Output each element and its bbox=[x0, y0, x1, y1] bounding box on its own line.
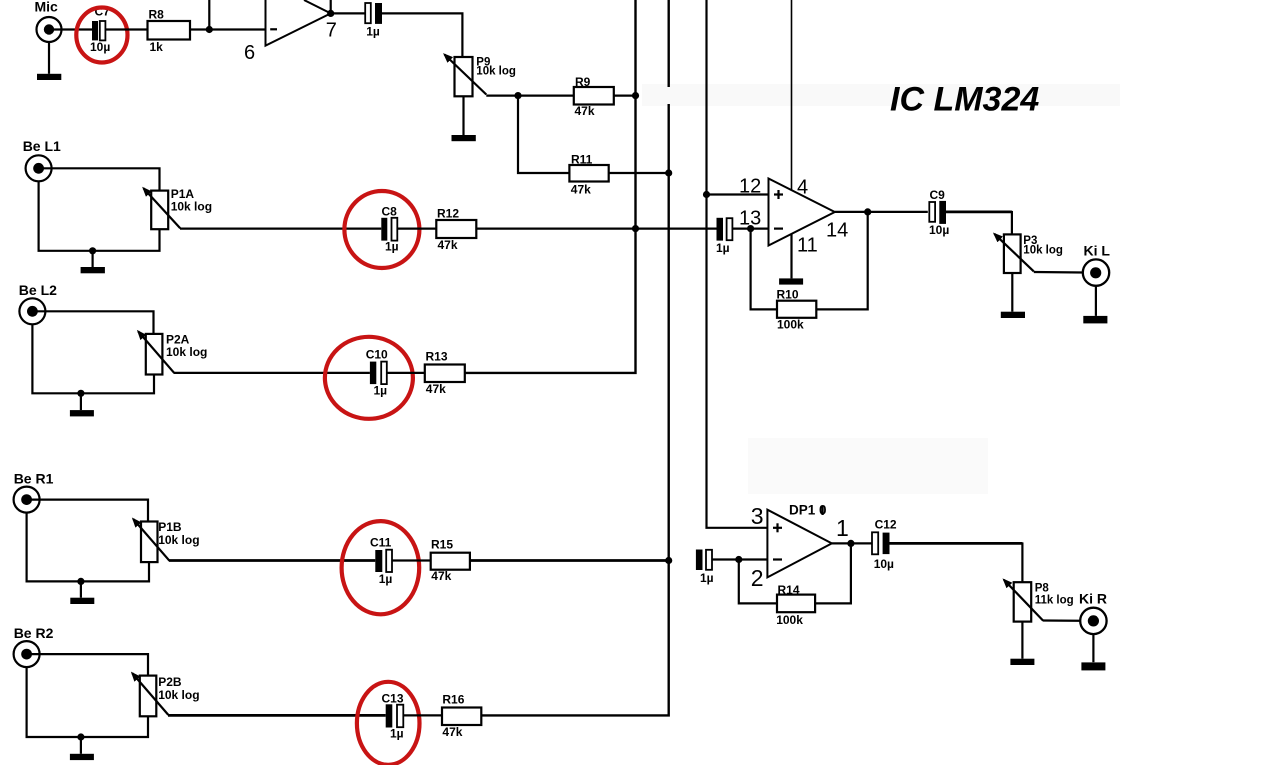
svg-text:14: 14 bbox=[826, 220, 848, 242]
wire summing node to input cap U1D bbox=[476, 228, 716, 230]
node Ki L label bbox=[1084, 242, 1111, 258]
ground Mic bbox=[37, 74, 61, 80]
wire P2A wiper to C10 bbox=[174, 372, 370, 374]
value 1µ C10 bbox=[374, 383, 388, 397]
connector Ki L jack bbox=[1083, 259, 1109, 285]
potentiometer P9 bbox=[445, 55, 487, 97]
wire cap to pin 2 bbox=[712, 558, 767, 560]
potentiometer P2B bbox=[132, 673, 168, 716]
capacitor C13 bbox=[386, 704, 404, 727]
value 10k log P2A bbox=[166, 345, 207, 359]
value 10µ C12 bbox=[874, 557, 894, 571]
svg-text:10µ: 10µ bbox=[929, 223, 949, 237]
value 47k bbox=[575, 104, 595, 118]
value 10k log P2B bbox=[158, 688, 199, 702]
svg-text:100k: 100k bbox=[776, 613, 803, 627]
wire Be L1 jack to P1A top bbox=[39, 168, 160, 190]
capacitor C8 bbox=[381, 218, 397, 241]
label R9 bbox=[575, 75, 591, 89]
svg-text:1µ: 1µ bbox=[716, 241, 730, 255]
node Be R1 label bbox=[14, 471, 54, 487]
svg-text:P8: P8 bbox=[1035, 582, 1050, 594]
svg-text:R16: R16 bbox=[442, 692, 464, 706]
svg-text:100k: 100k bbox=[777, 317, 804, 331]
svg-text:10k log: 10k log bbox=[158, 688, 199, 702]
svg-text:10k log: 10k log bbox=[171, 199, 212, 213]
svg-text:47k: 47k bbox=[431, 569, 451, 583]
junction pin 12 bus C bbox=[703, 191, 710, 198]
wire Ki R jack to ground bbox=[1092, 634, 1094, 662]
pin 12 label bbox=[739, 176, 761, 198]
value 10k log P1B bbox=[158, 533, 199, 547]
junction Be R2 ground node bbox=[77, 733, 84, 740]
wire pin 7 to coupling cap bbox=[331, 12, 366, 14]
svg-text:C8: C8 bbox=[382, 205, 398, 219]
capacitor C12 bbox=[872, 532, 890, 554]
red highlight circle around C11 bbox=[342, 521, 420, 614]
value 1µ pin2 cap bbox=[700, 571, 714, 585]
svg-text:10µ: 10µ bbox=[90, 40, 110, 54]
op-amp U1B (mic preamp, partial) bbox=[266, 0, 331, 46]
label P2B bbox=[158, 675, 182, 689]
pin 6 label bbox=[244, 42, 255, 64]
svg-text:Ki R: Ki R bbox=[1079, 590, 1107, 606]
wire Be R1 jack to P1B top bbox=[27, 500, 148, 522]
wire R11 to bus B bbox=[609, 172, 669, 174]
ground P9 bbox=[452, 135, 476, 141]
wire feedback stub up from pin 7 bbox=[330, 0, 332, 13]
svg-text:1µ: 1µ bbox=[374, 383, 388, 397]
potentiometer P8 bbox=[1004, 580, 1043, 622]
svg-text:7: 7 bbox=[326, 19, 337, 41]
junction Be L2 ground node bbox=[77, 390, 84, 397]
svg-text:R8: R8 bbox=[149, 8, 165, 22]
value 47k R11 bbox=[571, 182, 591, 196]
svg-text:10µ: 10µ bbox=[874, 557, 894, 571]
svg-text:1: 1 bbox=[836, 515, 849, 541]
label R11 bbox=[571, 152, 593, 166]
wire feedback right leg U1D bbox=[816, 212, 867, 310]
junction summing bus A bbox=[632, 225, 639, 232]
wire bus line A (left summing node) bbox=[465, 0, 636, 373]
wire Mic jack to C7 bbox=[49, 28, 93, 30]
label C12 bbox=[875, 517, 897, 531]
svg-text:1µ: 1µ bbox=[379, 572, 393, 586]
wire bus line C (reference to non-inverting inputs) bbox=[707, 0, 768, 528]
wire Be R1 jack shield loop bbox=[27, 512, 149, 581]
label C9 bbox=[930, 188, 946, 202]
value 11k log P8 bbox=[1035, 595, 1074, 607]
value 47k R15 bbox=[431, 569, 451, 583]
junction R15 bus B bbox=[665, 557, 672, 564]
label R16 bbox=[442, 692, 464, 706]
wire Be R1 ground stem bbox=[80, 581, 82, 597]
svg-text:R14: R14 bbox=[778, 583, 800, 597]
wire P3 wiper to Ki L jack bbox=[1034, 271, 1096, 274]
junction output node U1D bbox=[864, 208, 871, 215]
value 47k R16 bbox=[442, 725, 462, 739]
capacitor 1µ mic preamp output bbox=[365, 3, 382, 24]
wire cap to pin 13 bbox=[732, 228, 768, 230]
connector Ki R jack bbox=[1080, 608, 1106, 634]
value 1µ C13 bbox=[390, 727, 404, 741]
value 1µ pin13 cap bbox=[716, 241, 730, 255]
label R14 bbox=[778, 583, 800, 597]
potentiometer P3 bbox=[994, 234, 1033, 273]
resistor R15 bbox=[431, 553, 470, 570]
label P1B bbox=[158, 520, 182, 534]
capacitor 1µ at pin 13 bbox=[717, 218, 733, 241]
svg-text:R11: R11 bbox=[571, 152, 593, 166]
junction R9 bus A bbox=[632, 92, 639, 99]
value 100k R10 bbox=[777, 317, 804, 331]
svg-text:12: 12 bbox=[739, 176, 761, 198]
node Be L1 label bbox=[23, 138, 61, 154]
svg-text:47k: 47k bbox=[571, 182, 591, 196]
wire bus line B (right summing node) bbox=[481, 0, 668, 715]
wire C9 to P3 bbox=[946, 211, 1012, 235]
wire C13 to R16 bbox=[403, 714, 442, 716]
svg-text:R10: R10 bbox=[777, 288, 799, 302]
wire C7 to R8 bbox=[105, 28, 147, 30]
svg-text:Be L2: Be L2 bbox=[19, 282, 57, 298]
label R13 bbox=[426, 350, 448, 364]
pin 3 label bbox=[751, 503, 764, 529]
svg-text:47k: 47k bbox=[575, 104, 595, 118]
title IC LM324 bbox=[890, 81, 1039, 119]
svg-text:C12: C12 bbox=[875, 517, 897, 531]
label DP1 a bbox=[789, 503, 827, 518]
wire cap to P9 bbox=[382, 13, 462, 57]
resistor R8 bbox=[148, 21, 191, 40]
junction pin 13 feedback node bbox=[747, 225, 754, 232]
svg-text:IC LM324: IC LM324 bbox=[890, 81, 1039, 119]
svg-text:10k log: 10k log bbox=[476, 66, 516, 78]
wire P8 wiper to Ki R jack bbox=[1043, 619, 1093, 622]
pin 11 label bbox=[797, 235, 818, 257]
wire P8 to ground bbox=[1021, 622, 1023, 659]
pin minus sign U1D bbox=[774, 228, 783, 230]
wire feedback left leg U1D bbox=[751, 229, 777, 310]
node Mic label bbox=[35, 0, 59, 15]
wire C8 to R12 bbox=[397, 228, 436, 230]
potentiometer P1A bbox=[144, 188, 181, 229]
label C8 bbox=[382, 205, 398, 219]
svg-text:47k: 47k bbox=[442, 725, 462, 739]
svg-text:P2B: P2B bbox=[158, 675, 182, 689]
svg-text:1µ: 1µ bbox=[390, 727, 404, 741]
red highlight circle around C10 bbox=[325, 337, 413, 419]
junction op-amp output node bbox=[327, 10, 334, 17]
label C7 bbox=[95, 5, 111, 19]
svg-text:Be L1: Be L1 bbox=[23, 138, 61, 154]
wire Be L2 jack shield loop bbox=[32, 324, 154, 394]
wire P1B wiper to C11 bbox=[169, 559, 375, 562]
pin minus sign U1A bbox=[773, 558, 782, 560]
svg-text:1µ: 1µ bbox=[385, 240, 399, 254]
label P9 bbox=[476, 57, 490, 69]
wire Be L1 jack shield loop bbox=[39, 181, 160, 251]
wire feedback left leg U1A bbox=[739, 560, 777, 604]
label C13 bbox=[382, 692, 404, 706]
svg-text:4: 4 bbox=[797, 177, 808, 199]
pin minus sign U1B bbox=[270, 28, 277, 30]
value 10k log P1A bbox=[171, 199, 212, 213]
wire feedback stub up from R8 node bbox=[208, 0, 210, 30]
label C10 bbox=[366, 348, 388, 362]
ground Be R2 bbox=[70, 754, 94, 760]
svg-text:10k log: 10k log bbox=[1023, 244, 1063, 256]
wire P2B wiper to C13 bbox=[168, 714, 386, 717]
wire Mic jack to ground bbox=[48, 42, 50, 74]
svg-text:13: 13 bbox=[739, 208, 761, 230]
connector Be R2 jack bbox=[14, 641, 40, 667]
value 10k log bbox=[476, 66, 516, 78]
resistor R9 bbox=[574, 87, 614, 105]
resistor R16 bbox=[442, 708, 481, 726]
op-amp U1A summing right bbox=[767, 510, 831, 578]
red highlight circle around C13 bbox=[357, 682, 420, 765]
ground Ki L bbox=[1083, 316, 1107, 324]
wire R15 to bus B bbox=[470, 559, 669, 562]
red highlight circle around C8 bbox=[344, 191, 419, 268]
resistor R13 bbox=[425, 365, 465, 383]
value 47k R13 bbox=[426, 382, 446, 396]
junction Be L1 ground node bbox=[89, 247, 96, 254]
svg-text:10k log: 10k log bbox=[166, 345, 207, 359]
wire C11 to R15 bbox=[392, 559, 431, 561]
svg-text:47k: 47k bbox=[426, 382, 446, 396]
svg-text:DP1 0: DP1 0 bbox=[789, 503, 827, 518]
svg-text:R12: R12 bbox=[437, 207, 459, 221]
junction output node U1A bbox=[847, 540, 854, 547]
wire pin 12 from bus C bbox=[707, 193, 769, 195]
pin 2 label bbox=[751, 565, 764, 591]
svg-text:Ki L: Ki L bbox=[1084, 242, 1111, 258]
label R10 bbox=[777, 288, 799, 302]
svg-text:11: 11 bbox=[797, 235, 818, 257]
svg-text:R9: R9 bbox=[575, 75, 591, 89]
value 1k bbox=[150, 40, 164, 54]
wire P3 to ground bbox=[1011, 273, 1013, 312]
wire Be R2 jack to P2B top bbox=[27, 654, 148, 676]
wire pin 11 to ground bbox=[790, 234, 792, 279]
op-amp U1D summing left bbox=[769, 179, 835, 246]
ground Be L1 bbox=[81, 267, 105, 273]
svg-text:1µ: 1µ bbox=[700, 571, 714, 585]
connector Be L1 jack bbox=[26, 155, 52, 181]
svg-text:R15: R15 bbox=[431, 538, 453, 552]
connector Be R1 jack bbox=[14, 487, 40, 513]
label R12 bbox=[437, 207, 459, 221]
node Be L2 label bbox=[19, 282, 57, 298]
label P2A bbox=[166, 333, 190, 347]
value 1µ C8 bbox=[385, 240, 399, 254]
wire bus line D (pin 4 supply) bbox=[791, 0, 793, 190]
wire P9 node down to R11 bbox=[518, 96, 569, 173]
resistor R12 bbox=[436, 220, 476, 238]
ground pin 11 bbox=[779, 278, 803, 284]
pin 7 label bbox=[326, 19, 337, 41]
wire Be L2 ground stem bbox=[80, 393, 82, 410]
wire Ki L jack to ground bbox=[1095, 286, 1097, 316]
junction pin 2 feedback node bbox=[735, 556, 742, 563]
pin 4 label bbox=[797, 177, 808, 199]
ground Ki R bbox=[1081, 662, 1105, 670]
svg-text:Be R2: Be R2 bbox=[14, 625, 54, 641]
pin 1 label bbox=[836, 515, 849, 541]
label P1A bbox=[171, 187, 195, 201]
resistor R14 bbox=[777, 595, 815, 613]
value 10k log P3 bbox=[1023, 244, 1063, 256]
capacitor C10 bbox=[370, 362, 387, 385]
pin 14 label bbox=[826, 220, 848, 242]
label R8 bbox=[149, 8, 165, 22]
svg-text:3: 3 bbox=[751, 503, 764, 529]
wire Be L2 jack to P2A top bbox=[32, 311, 153, 334]
node Ki R label bbox=[1079, 590, 1107, 606]
svg-text:P1B: P1B bbox=[158, 520, 182, 534]
capacitor 1µ at pin 2 bbox=[696, 550, 712, 571]
svg-text:R13: R13 bbox=[426, 350, 448, 364]
red highlight circle around C7 bbox=[76, 8, 127, 63]
svg-text:C13: C13 bbox=[382, 692, 404, 706]
junction R11 bus B bbox=[665, 169, 672, 176]
wire Be L1 ground stem bbox=[91, 251, 93, 267]
wire pin 14 output to C9 bbox=[835, 211, 928, 213]
connector Mic jack bbox=[37, 17, 62, 42]
svg-text:2: 2 bbox=[751, 565, 764, 591]
value 1µ bbox=[366, 25, 380, 39]
label R15 bbox=[431, 538, 453, 552]
connector Be L2 jack bbox=[19, 298, 45, 324]
wire feedback right leg U1A bbox=[815, 543, 851, 603]
junction P9 wiper node bbox=[514, 92, 521, 99]
node Be R2 label bbox=[14, 625, 54, 641]
potentiometer P2A bbox=[138, 331, 174, 374]
value 10µ C9 bbox=[929, 223, 949, 237]
label P3 bbox=[1023, 235, 1037, 247]
capacitor C7 bbox=[92, 21, 105, 40]
wire Be R2 ground stem bbox=[80, 737, 82, 754]
svg-text:C10: C10 bbox=[366, 348, 388, 362]
svg-text:Be R1: Be R1 bbox=[14, 471, 54, 487]
wire pin 1 output to C12 bbox=[832, 542, 872, 544]
ground Be L2 bbox=[70, 410, 94, 416]
capacitor C9 bbox=[929, 201, 946, 224]
wire P1A wiper to C8 bbox=[180, 228, 381, 230]
label P8 bbox=[1035, 582, 1050, 594]
junction Be R1 ground node bbox=[77, 578, 84, 585]
wire R8 to op-amp pin 6 bbox=[190, 28, 266, 30]
wire P9 to ground bbox=[462, 96, 464, 135]
ground P8 bbox=[1010, 659, 1034, 665]
value 10µ bbox=[90, 40, 110, 54]
resistor R11 bbox=[569, 165, 608, 182]
wire C10 to R13 bbox=[387, 372, 425, 374]
svg-text:47k: 47k bbox=[438, 238, 458, 252]
capacitor C11 bbox=[375, 550, 392, 572]
svg-text:10k log: 10k log bbox=[158, 533, 199, 547]
ground P3 bbox=[1001, 312, 1025, 318]
svg-text:6: 6 bbox=[244, 42, 255, 64]
svg-text:C9: C9 bbox=[930, 188, 946, 202]
svg-text:1µ: 1µ bbox=[366, 25, 380, 39]
svg-text:C11: C11 bbox=[370, 535, 392, 549]
jpeg smear artifact band bbox=[642, 84, 1120, 494]
pin 13 label bbox=[739, 208, 761, 230]
value 1µ C11 bbox=[379, 572, 393, 586]
wire R9 to bus A bbox=[614, 94, 636, 96]
value 100k R14 bbox=[776, 613, 803, 627]
ground Be R1 bbox=[70, 598, 94, 604]
svg-text:1k: 1k bbox=[150, 40, 164, 54]
pin plus sign U1D bbox=[774, 190, 783, 199]
potentiometer P1B bbox=[133, 519, 169, 562]
svg-text:11k log: 11k log bbox=[1035, 595, 1074, 607]
resistor R10 bbox=[777, 301, 816, 318]
svg-text:Mic: Mic bbox=[35, 0, 59, 15]
value 47k R12 bbox=[438, 238, 458, 252]
wire P9 wiper to R9 bbox=[486, 94, 574, 96]
junction R8 node bbox=[206, 26, 213, 33]
pin plus sign U1A bbox=[773, 523, 782, 532]
wire C12 to P8 bbox=[889, 542, 1022, 582]
wire Be R2 jack shield loop bbox=[27, 667, 148, 737]
label C11 bbox=[370, 535, 392, 549]
